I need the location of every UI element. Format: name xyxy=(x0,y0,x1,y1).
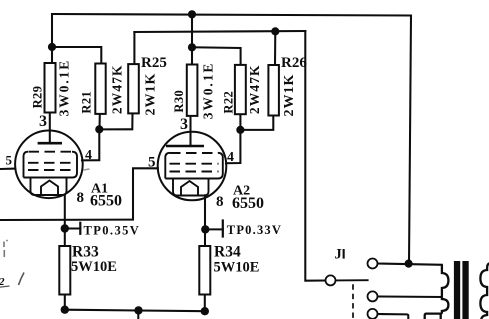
resistor R26 xyxy=(268,65,279,116)
svg-text:6550: 6550 xyxy=(90,193,122,210)
transformer secondary winding xyxy=(480,263,489,319)
transformer T primary winding xyxy=(425,265,449,319)
svg-text:R29: R29 xyxy=(31,86,45,109)
wire J1 pin4 corner going off page xyxy=(377,314,408,319)
terminal J1 pin 2 xyxy=(368,259,378,269)
svg-text:2W47K: 2W47K xyxy=(110,64,125,114)
node junction top rail center xyxy=(188,10,196,18)
wire A1 cathode down to R33 xyxy=(64,195,66,246)
terminal J1 pin 1 xyxy=(326,275,336,285)
node test point junction A1 cathode xyxy=(61,224,69,232)
svg-text:R33: R33 xyxy=(72,244,99,261)
resistor R21 xyxy=(95,64,105,114)
wire stub from bottom rail going off page xyxy=(137,310,139,319)
svg-text:3W0.1E: 3W0.1E xyxy=(200,62,215,120)
wire node down to pin 4 of A1 xyxy=(82,129,99,160)
resistor R34 xyxy=(199,246,210,295)
wire test point tick A1 xyxy=(65,227,81,229)
resistor R30 xyxy=(187,65,198,116)
test point bar A1 xyxy=(79,223,81,234)
svg-text:R34: R34 xyxy=(214,244,241,261)
wire R22 bottom lead xyxy=(239,114,241,130)
svg-text:2W47K: 2W47K xyxy=(247,64,262,114)
svg-text:4: 4 xyxy=(85,148,92,163)
svg-text:5W10E: 5W10E xyxy=(214,260,260,276)
wire J1 pin3 to transformer primary tap xyxy=(377,295,441,298)
svg-text:8: 8 xyxy=(77,190,85,206)
wire R26 top lead xyxy=(274,31,276,65)
svg-text:3W0.1E: 3W0.1E xyxy=(56,59,71,117)
off-page marker 1 (left edge) xyxy=(4,240,8,257)
svg-text:3: 3 xyxy=(39,113,47,130)
wire A2 cathode down to R34 xyxy=(204,195,206,246)
wire screen rail (second rail) xyxy=(134,31,305,32)
wire node to R22 top xyxy=(192,47,241,65)
stray mark right of A1 xyxy=(84,169,90,170)
wire node down to pin 4 of A2 xyxy=(226,130,240,163)
svg-text:R21: R21 xyxy=(79,91,93,114)
wire R22/R26 bottom link xyxy=(240,116,273,130)
wire rail2 corner down to R25 top xyxy=(133,32,135,64)
resistor R22 xyxy=(235,65,246,114)
wire R30 bottom to A2 plate xyxy=(189,116,191,146)
wire J1 pin2 to transformer primary top xyxy=(377,264,442,265)
wire rail2 right corner down to J1 pin xyxy=(305,31,325,281)
wire A2 grid line to left edge xyxy=(0,168,158,220)
wire test point tick A2 xyxy=(205,228,223,230)
svg-text:R25: R25 xyxy=(141,55,167,71)
transformer core bar right xyxy=(462,261,468,319)
svg-text:4: 4 xyxy=(227,150,234,165)
wire right drop from top rail to transformer feed xyxy=(409,16,411,264)
svg-text:3: 3 xyxy=(180,116,188,133)
resistor R25 xyxy=(128,64,139,113)
test point bar A2 xyxy=(222,221,224,237)
wire left drop from top rail to node of R29/R21 xyxy=(51,14,53,63)
transformer core bar left xyxy=(454,261,460,319)
terminal J1 pin 3 xyxy=(368,291,378,301)
node junction R34 bottom xyxy=(201,307,209,315)
wire R34 bottom lead xyxy=(204,295,206,312)
svg-text:R30: R30 xyxy=(172,90,186,113)
node test point junction A2 cathode xyxy=(201,225,209,233)
wire bottom cathode rail xyxy=(65,310,205,312)
wire center drop from top rail to node of R30/R22 xyxy=(191,14,193,64)
svg-text:2W1K: 2W1K xyxy=(282,74,297,117)
resistor R29 xyxy=(45,63,56,113)
svg-text:6550: 6550 xyxy=(232,195,264,212)
resistor R33 xyxy=(59,246,70,295)
connector J1 mating dashed line xyxy=(352,284,354,319)
wire pin 5 of A1 to left edge xyxy=(0,168,15,170)
wire top supply rail xyxy=(52,14,411,16)
svg-text:TP0.35V: TP0.35V xyxy=(84,224,141,238)
svg-text:2W1K: 2W1K xyxy=(144,73,159,116)
node junction R26 top on rail2 xyxy=(271,27,279,35)
svg-text:TP0.33V: TP0.33V xyxy=(227,223,282,237)
svg-text:R22: R22 xyxy=(221,91,235,114)
wire R33 bottom lead xyxy=(64,295,66,310)
node junction R33 bottom xyxy=(61,306,69,314)
wire node to R21 top xyxy=(52,47,101,64)
wire R29 bottom to A1 plate xyxy=(49,113,51,144)
svg-text:8: 8 xyxy=(216,194,224,210)
svg-text:5W10E: 5W10E xyxy=(71,259,117,275)
svg-text:J: J xyxy=(335,247,342,263)
svg-text:5: 5 xyxy=(6,153,13,168)
svg-text:5: 5 xyxy=(148,155,156,171)
tube A2 (6550) xyxy=(158,132,227,201)
node junction bottom rail center xyxy=(134,306,142,314)
terminal J1 pin 4 xyxy=(368,309,378,319)
wire R21 bottom lead xyxy=(98,114,100,129)
svg-text:R26: R26 xyxy=(281,55,307,71)
node junction B+ to primary top xyxy=(405,260,413,268)
node junction R29/R21 top xyxy=(48,43,56,51)
wire R21/R25 bottom link xyxy=(99,113,132,129)
node junction R22/R26 bottom xyxy=(236,126,244,134)
tube A1 (6550) xyxy=(15,131,83,199)
wire J1 pin 1 mating line xyxy=(336,279,369,281)
node junction R30/R22 top xyxy=(188,43,196,51)
node junction R21/R25 bottom xyxy=(95,125,103,133)
